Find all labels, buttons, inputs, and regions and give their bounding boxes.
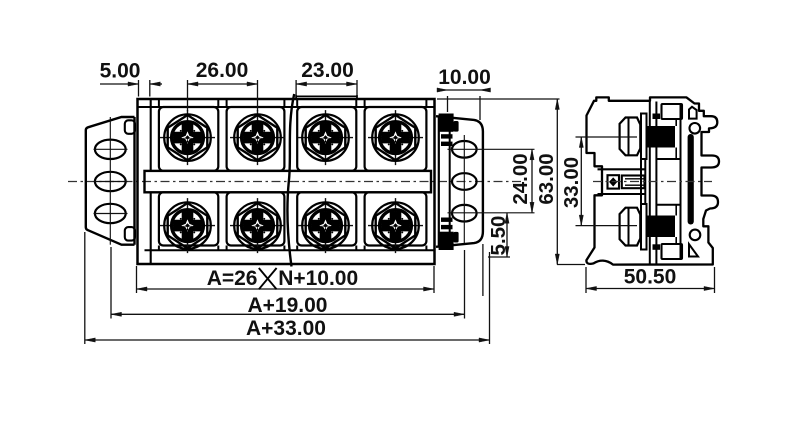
svg-text:N+10.00: N+10.00	[278, 267, 358, 290]
svg-text:5.00: 5.00	[100, 60, 141, 83]
svg-text:10.00: 10.00	[438, 66, 491, 89]
svg-text:63.00: 63.00	[535, 153, 558, 204]
svg-text:24.00: 24.00	[509, 153, 532, 204]
svg-text:A+33.00: A+33.00	[246, 317, 326, 340]
svg-text:A+19.00: A+19.00	[248, 294, 328, 317]
svg-text:26.00: 26.00	[196, 59, 249, 82]
svg-text:23.00: 23.00	[301, 59, 354, 82]
svg-text:33.00: 33.00	[560, 157, 583, 208]
svg-text:A=26: A=26	[207, 267, 258, 290]
svg-text:50.50: 50.50	[624, 265, 677, 288]
svg-text:5.50: 5.50	[487, 216, 510, 256]
